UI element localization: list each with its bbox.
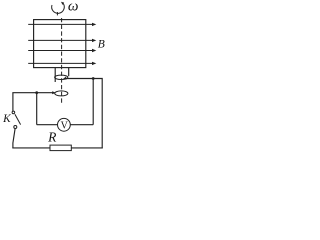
coil frame [34,20,86,68]
voltmeter V [58,118,71,131]
wire bottom rail left [12,147,50,149]
slip ring upper [55,75,68,79]
resistor R [50,145,71,151]
wire brush upper to right rail [66,79,102,149]
junction dot right [92,77,95,80]
wire brush lower to left rail [13,93,53,111]
field line B3 [28,50,93,52]
brush upper [63,77,67,80]
wire V branch right horizontal [70,124,93,126]
coil lead right [68,68,70,77]
brush lower [52,91,56,94]
field line B4 [28,62,93,64]
axle tick [56,12,58,15]
wire V branch left horizontal [37,124,58,126]
svg-text:V: V [61,121,69,132]
switch K contact top [12,111,15,114]
junction dot left [35,91,38,94]
slip ring lower [55,91,68,96]
switch K contact bottom [14,126,17,129]
svg-text:K: K [2,113,11,125]
switch K lever [15,114,21,124]
wire bottom rail right [71,147,102,149]
field line B1 [28,23,93,25]
wire left rail lower [13,129,15,149]
wire V branch left vertical [36,93,38,125]
svg-text:B: B [98,39,105,51]
svg-text:R: R [47,130,57,145]
svg-text:ω: ω [68,0,79,15]
coil lead left [54,68,56,82]
wire V branch right vertical [92,79,94,125]
field line B2 [28,39,93,41]
axis dashed line [61,18,63,104]
rotation arrow [52,3,65,13]
rotation arrowhead [61,2,64,5]
